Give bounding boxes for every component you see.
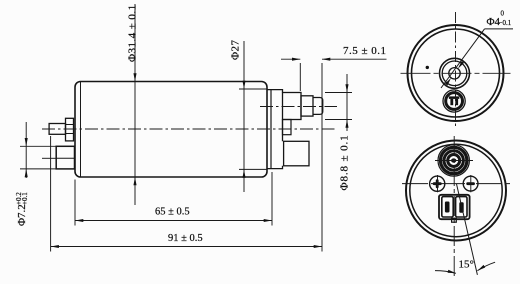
svg-text:0: 0: [501, 10, 505, 18]
svg-text:65 ± 0.5: 65 ± 0.5: [155, 207, 190, 218]
svg-text:Φ31.4 ± 0.1: Φ31.4 ± 0.1: [127, 4, 139, 62]
svg-text:7.5 ± 0.1: 7.5 ± 0.1: [343, 45, 387, 57]
svg-text:+0.1: +0.1: [21, 192, 29, 205]
svg-text:15°: 15°: [459, 259, 474, 271]
svg-text:Φ27: Φ27: [230, 39, 242, 60]
svg-text:Φ7.2: Φ7.2: [16, 204, 28, 226]
svg-text:Φ8.8 ± 0.1: Φ8.8 ± 0.1: [339, 134, 351, 190]
svg-text:−0.1: −0.1: [499, 19, 512, 27]
svg-text:91 ± 0.5: 91 ± 0.5: [168, 233, 203, 244]
